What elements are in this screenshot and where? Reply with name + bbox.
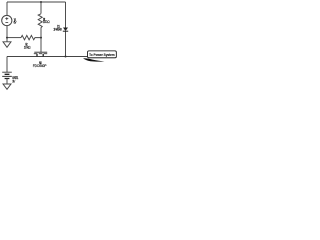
svg-text:100 Ω: 100 Ω xyxy=(43,20,50,24)
svg-text:1N4148: 1N4148 xyxy=(53,27,62,31)
svg-text:FDC640P: FDC640P xyxy=(33,64,47,68)
svg-text:To Power System: To Power System xyxy=(89,52,115,57)
svg-text:6 V: 6 V xyxy=(14,21,18,25)
svg-text:10 kΩ: 10 kΩ xyxy=(24,46,31,50)
svg-text:3 V: 3 V xyxy=(12,80,16,84)
